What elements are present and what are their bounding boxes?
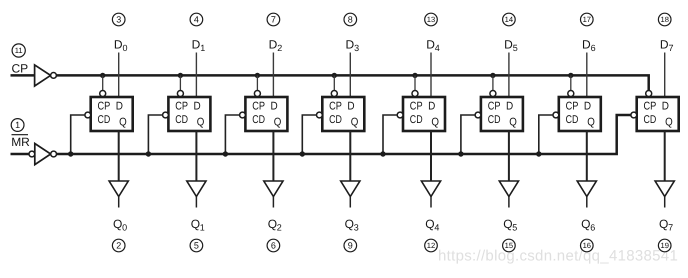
- svg-text:CD: CD: [98, 114, 111, 126]
- inverter U1 (CP buffer): [35, 65, 57, 86]
- flip-flop FF6: [475, 91, 523, 132]
- label Q3: [345, 217, 359, 233]
- svg-text:3: 3: [354, 223, 359, 233]
- svg-text:CP: CP: [644, 101, 657, 113]
- svg-text:14: 14: [505, 15, 513, 24]
- svg-text:Q: Q: [503, 217, 512, 231]
- wire Q7: [664, 131, 666, 181]
- svg-text:D: D: [506, 101, 513, 113]
- pin 18: [658, 13, 671, 26]
- svg-text:5: 5: [513, 43, 518, 53]
- buffer Q2 output: [264, 181, 283, 208]
- svg-text:Q: Q: [665, 117, 673, 129]
- label Q7: [659, 217, 673, 233]
- svg-text:Q: Q: [113, 217, 122, 231]
- junction MR bus tap FF2: [146, 151, 151, 156]
- svg-text:1: 1: [200, 43, 205, 53]
- svg-text:18: 18: [660, 15, 668, 24]
- wire Q3: [349, 131, 351, 181]
- wire clock stub FF4: [333, 75, 335, 90]
- wire CP bus: [56, 75, 648, 90]
- svg-text:Q: Q: [509, 117, 517, 129]
- buffer Q5 output: [499, 181, 518, 208]
- buffer Q7 output: [655, 181, 674, 208]
- svg-text:2: 2: [116, 241, 121, 251]
- label D3: [346, 37, 360, 53]
- wire clock stub FF5: [414, 75, 416, 90]
- svg-text:D: D: [347, 101, 354, 113]
- label MR (active low): [11, 135, 30, 149]
- junction CP bus tap FF3: [255, 73, 260, 78]
- wire clock stub FF7: [570, 75, 572, 90]
- svg-text:Q: Q: [197, 117, 205, 129]
- svg-text:17: 17: [583, 15, 591, 24]
- label D0: [114, 37, 128, 53]
- label D6: [582, 37, 596, 53]
- svg-text:D: D: [428, 101, 435, 113]
- svg-text:1: 1: [200, 223, 205, 233]
- pin 6: [267, 239, 280, 252]
- pin 7: [267, 13, 280, 26]
- svg-text:9: 9: [348, 241, 353, 251]
- svg-text:CD: CD: [252, 114, 265, 126]
- svg-text:2: 2: [277, 43, 282, 53]
- wire clock stub FF2: [179, 75, 181, 90]
- svg-text:19: 19: [660, 241, 668, 250]
- junction MR bus tap FF3: [223, 151, 228, 156]
- svg-text:4: 4: [194, 15, 199, 25]
- svg-text:6: 6: [271, 241, 276, 251]
- wire D7: [664, 53, 666, 98]
- svg-text:Q: Q: [425, 217, 434, 231]
- pin 19: [658, 239, 671, 252]
- wire MR bus: [57, 115, 632, 154]
- svg-text:CP: CP: [98, 101, 111, 113]
- svg-text:Q: Q: [351, 117, 359, 129]
- svg-text:15: 15: [505, 241, 513, 250]
- svg-text:CD: CD: [329, 114, 342, 126]
- pin 2: [112, 239, 125, 252]
- svg-text:Q: Q: [431, 117, 439, 129]
- svg-text:13: 13: [427, 15, 435, 24]
- svg-text:https://blog.csdn.net/qq_41838: https://blog.csdn.net/qq_41838541: [438, 248, 678, 265]
- pin 16: [581, 239, 594, 252]
- svg-text:CP: CP: [329, 101, 342, 113]
- pin 15: [503, 239, 516, 252]
- label D7: [660, 37, 674, 53]
- wire CP input: [11, 74, 35, 77]
- label Q0: [113, 217, 127, 233]
- wire reset stub FF2: [148, 115, 162, 154]
- junction MR bus tap FF4: [300, 151, 305, 156]
- label Q6: [581, 217, 595, 233]
- junction CP bus tap FF4: [332, 73, 337, 78]
- pin 11: [12, 44, 25, 57]
- wire clock stub FF6: [492, 75, 494, 90]
- svg-text:Q: Q: [274, 117, 282, 129]
- wire Q6: [586, 131, 588, 181]
- wire Q2: [272, 131, 274, 181]
- svg-text:6: 6: [590, 223, 595, 233]
- wire clock stub FF3: [256, 75, 258, 90]
- wire D2: [272, 53, 274, 98]
- wire D1: [195, 53, 197, 98]
- pin 1: [11, 119, 24, 132]
- svg-text:12: 12: [427, 241, 435, 250]
- wire D0: [118, 53, 120, 98]
- pin 17: [581, 13, 594, 26]
- wire reset stub FF3: [225, 115, 239, 154]
- label Q1: [191, 217, 205, 233]
- junction CP bus tap FF5: [412, 73, 417, 78]
- pin 5: [190, 239, 203, 252]
- svg-text:3: 3: [116, 15, 121, 25]
- flip-flop FF2: [163, 91, 211, 132]
- wire Q1: [195, 131, 197, 181]
- svg-text:CP: CP: [175, 101, 188, 113]
- buffer Q6 output: [577, 181, 596, 208]
- svg-text:6: 6: [591, 43, 596, 53]
- label Q5: [503, 217, 517, 233]
- svg-text:CD: CD: [410, 114, 423, 126]
- svg-text:Q: Q: [345, 217, 354, 231]
- pin 12: [425, 239, 438, 252]
- svg-text:0: 0: [123, 43, 128, 53]
- flip-flop FF4: [317, 91, 365, 132]
- pin 8: [344, 13, 357, 26]
- wire reset stub FF1: [71, 115, 85, 154]
- svg-text:Q: Q: [587, 117, 595, 129]
- junction MR bus tap FF7: [536, 151, 541, 156]
- pin 4: [190, 13, 203, 26]
- svg-text:D: D: [662, 101, 669, 113]
- pin 9: [344, 239, 357, 252]
- svg-text:7: 7: [271, 15, 276, 25]
- svg-text:CP: CP: [12, 62, 29, 76]
- label D5: [504, 37, 518, 53]
- svg-text:CP: CP: [488, 101, 501, 113]
- svg-text:CP: CP: [566, 101, 579, 113]
- wire MR input: [11, 153, 30, 156]
- svg-text:CD: CD: [566, 114, 579, 126]
- svg-text:2: 2: [277, 223, 282, 233]
- wire reset stub FF4: [302, 115, 316, 154]
- svg-text:D: D: [271, 101, 278, 113]
- svg-text:D: D: [194, 101, 201, 113]
- flip-flop FF1: [85, 91, 133, 132]
- svg-text:CD: CD: [175, 114, 188, 126]
- wire D4: [430, 53, 432, 98]
- pin 3: [112, 13, 125, 26]
- svg-text:Q: Q: [268, 217, 277, 231]
- flip-flop FF3: [240, 91, 288, 132]
- svg-text:Q: Q: [659, 217, 668, 231]
- svg-text:Q: Q: [191, 217, 200, 231]
- flip-flop FF8: [631, 91, 679, 132]
- junction MR bus tap FF1: [68, 151, 73, 156]
- junction CP bus tap FF7: [568, 73, 573, 78]
- svg-text:4: 4: [434, 223, 439, 233]
- pin 14: [503, 13, 516, 26]
- svg-text:0: 0: [122, 223, 127, 233]
- pin 13: [425, 13, 438, 26]
- svg-text:5: 5: [194, 241, 199, 251]
- svg-text:7: 7: [668, 223, 673, 233]
- wire Q4: [430, 131, 432, 181]
- svg-text:CP: CP: [410, 101, 423, 113]
- label Q2: [268, 217, 282, 233]
- junction CP bus tap FF6: [490, 73, 495, 78]
- svg-text:D: D: [584, 101, 591, 113]
- junction MR bus tap FF5: [380, 151, 385, 156]
- svg-text:7: 7: [669, 43, 674, 53]
- svg-text:CD: CD: [644, 114, 657, 126]
- flip-flop FF7: [553, 91, 601, 132]
- svg-text:5: 5: [512, 223, 517, 233]
- svg-text:8: 8: [348, 15, 353, 25]
- wire clock stub FF1: [102, 75, 104, 90]
- buffer Q3 output: [341, 181, 360, 208]
- buffer Q1 output: [187, 181, 206, 208]
- svg-text:MR: MR: [11, 135, 30, 149]
- svg-text:Q: Q: [119, 117, 127, 129]
- wire reset stub FF5: [383, 115, 397, 154]
- svg-text:CD: CD: [488, 114, 501, 126]
- svg-text:11: 11: [15, 46, 23, 55]
- svg-text:1: 1: [15, 120, 20, 130]
- svg-text:4: 4: [435, 43, 440, 53]
- label Q4: [425, 217, 439, 233]
- svg-text:Q: Q: [581, 217, 590, 231]
- junction CP bus tap FF2: [178, 73, 183, 78]
- svg-text:CP: CP: [252, 101, 265, 113]
- svg-text:16: 16: [583, 241, 591, 250]
- buffer Q0 output: [109, 181, 128, 208]
- inverter U2 (MR buffer): [29, 144, 56, 165]
- wire reset stub FF7: [539, 115, 553, 154]
- svg-text:D: D: [116, 101, 123, 113]
- wire Q5: [508, 131, 510, 181]
- svg-text:3: 3: [354, 43, 359, 53]
- wire D3: [349, 53, 351, 98]
- wire D5: [508, 53, 510, 98]
- wire Q0: [118, 131, 120, 181]
- wire D6: [586, 53, 588, 98]
- wire reset stub FF6: [461, 115, 475, 154]
- label D1: [192, 37, 206, 53]
- flip-flop FF5: [397, 91, 445, 132]
- junction CP bus tap FF1: [100, 73, 105, 78]
- label D2: [269, 37, 283, 53]
- label D4: [426, 37, 440, 53]
- buffer Q4 output: [421, 181, 440, 208]
- junction MR bus tap FF6: [458, 151, 463, 156]
